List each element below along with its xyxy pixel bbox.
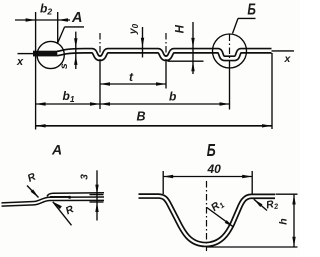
arrow R1 bbox=[225, 220, 235, 229]
arrow b right bbox=[220, 102, 230, 105]
leader R lower (detail A) bbox=[53, 202, 72, 226]
svg-text:40: 40 bbox=[207, 162, 222, 176]
svg-text:R2: R2 bbox=[265, 197, 280, 212]
arrow 3 up bbox=[95, 202, 98, 212]
arrow R lower bbox=[52, 200, 62, 209]
centerline big corrugation bbox=[229, 35, 231, 63]
svg-text:x: x bbox=[284, 53, 292, 65]
arrow 40 right bbox=[242, 175, 252, 178]
tick 3 top bbox=[90, 194, 104, 196]
dimension b1 line bbox=[36, 103, 100, 105]
leader to label Б bbox=[233, 18, 256, 33]
extension 40 left bbox=[162, 171, 164, 194]
leader R1 (detail Б) bbox=[207, 208, 234, 228]
arrow R upper bbox=[31, 189, 40, 199]
centerline corrugation 1 bbox=[99, 33, 101, 62]
svg-text:Б: Б bbox=[247, 0, 255, 18]
detail Б profile outer stroke bbox=[139, 196, 276, 244]
arrow b2 right bbox=[58, 18, 68, 21]
arrow H down bbox=[191, 38, 194, 48]
svg-text:h: h bbox=[277, 218, 289, 224]
extension h bottom bbox=[206, 246, 298, 248]
arrow b1 right bbox=[90, 102, 100, 105]
arrow 3 down bbox=[95, 185, 98, 195]
detail A hem edge blob bbox=[68, 196, 71, 199]
wire x-axis right segment bbox=[272, 50, 295, 52]
tick 3 bottom bbox=[90, 201, 104, 203]
svg-text:b: b bbox=[169, 90, 176, 104]
arrow R2 bbox=[253, 198, 263, 207]
arrow h down bbox=[292, 237, 295, 247]
extension line left edge (b2/b1/B) bbox=[35, 12, 37, 130]
svg-text:3: 3 bbox=[80, 174, 91, 180]
arrow s down bbox=[74, 38, 77, 48]
centerline corrugation 2 bbox=[165, 33, 167, 62]
arrow 40 left bbox=[163, 175, 173, 178]
svg-text:t: t bbox=[129, 70, 134, 84]
leader to label A bbox=[58, 27, 84, 43]
hem bar (doubled edge) bbox=[33, 51, 57, 57]
centerline detail Б bbox=[206, 181, 208, 251]
svg-text:A: A bbox=[71, 10, 82, 26]
arrow t left bbox=[100, 82, 110, 85]
svg-text:R: R bbox=[26, 171, 38, 185]
dimension y0 line bbox=[142, 27, 144, 58]
extension 40 right bbox=[251, 171, 253, 194]
svg-text:H: H bbox=[175, 24, 187, 33]
extension line right edge (B) bbox=[271, 53, 273, 129]
arrow b left bbox=[100, 102, 110, 105]
dimension t line bbox=[100, 83, 166, 85]
arrow s up bbox=[74, 55, 77, 65]
svg-text:В: В bbox=[137, 110, 146, 124]
main profile sheet outer stroke bbox=[57, 51, 272, 59]
svg-text:R1: R1 bbox=[209, 197, 226, 214]
detail circle Б bbox=[213, 34, 247, 68]
extension corrugation 1 down bbox=[99, 62, 101, 109]
arrow B left bbox=[36, 124, 46, 127]
tick dip bottom for H bbox=[168, 60, 204, 62]
detail A sheet outer stroke bbox=[2, 199, 105, 205]
svg-text:Б: Б bbox=[207, 141, 216, 161]
wire x-axis left segment bbox=[18, 53, 34, 55]
arrow h up bbox=[292, 195, 295, 205]
extension big corrugation down bbox=[229, 62, 231, 110]
extension h top bbox=[276, 193, 298, 195]
detail A top surface line (folded layer top) bbox=[47, 193, 104, 197]
arrow H up bbox=[191, 61, 194, 71]
dimension s line bbox=[75, 32, 77, 69]
svg-text:s: s bbox=[58, 63, 70, 69]
detail A sheet white core bbox=[2, 199, 105, 205]
arrow y0 down bbox=[141, 38, 144, 48]
detail Б profile white core bbox=[139, 196, 276, 244]
arrow t right bbox=[156, 82, 166, 85]
dimension b line bbox=[100, 103, 230, 105]
svg-text:A: A bbox=[51, 141, 62, 157]
arrow b1 left bbox=[36, 102, 46, 105]
dimension 3 line (detail A) bbox=[96, 170, 98, 220]
extension corrugation 2 down bbox=[165, 62, 167, 89]
leader R2 (detail Б) bbox=[254, 199, 267, 210]
arrow b2 left bbox=[26, 18, 36, 21]
leader R upper (detail A) bbox=[27, 186, 39, 198]
dimension h line bbox=[293, 195, 295, 247]
svg-text:R: R bbox=[64, 203, 76, 217]
dimension H line bbox=[192, 22, 194, 74]
dimension b2 line bbox=[15, 19, 70, 21]
dimension B line bbox=[36, 125, 272, 127]
detail circle A bbox=[37, 41, 64, 68]
svg-text:x: x bbox=[16, 56, 24, 68]
arrow B right bbox=[262, 124, 272, 127]
svg-text:b1: b1 bbox=[63, 89, 75, 104]
extension line b2 right bbox=[57, 12, 59, 44]
main profile sheet inner white core bbox=[57, 51, 272, 59]
dimension 40 line bbox=[163, 176, 252, 178]
detail A hem interface line (edge of folded layer) bbox=[50, 196, 69, 198]
svg-text:b2: b2 bbox=[40, 2, 52, 17]
svg-text:y0: y0 bbox=[127, 23, 140, 35]
